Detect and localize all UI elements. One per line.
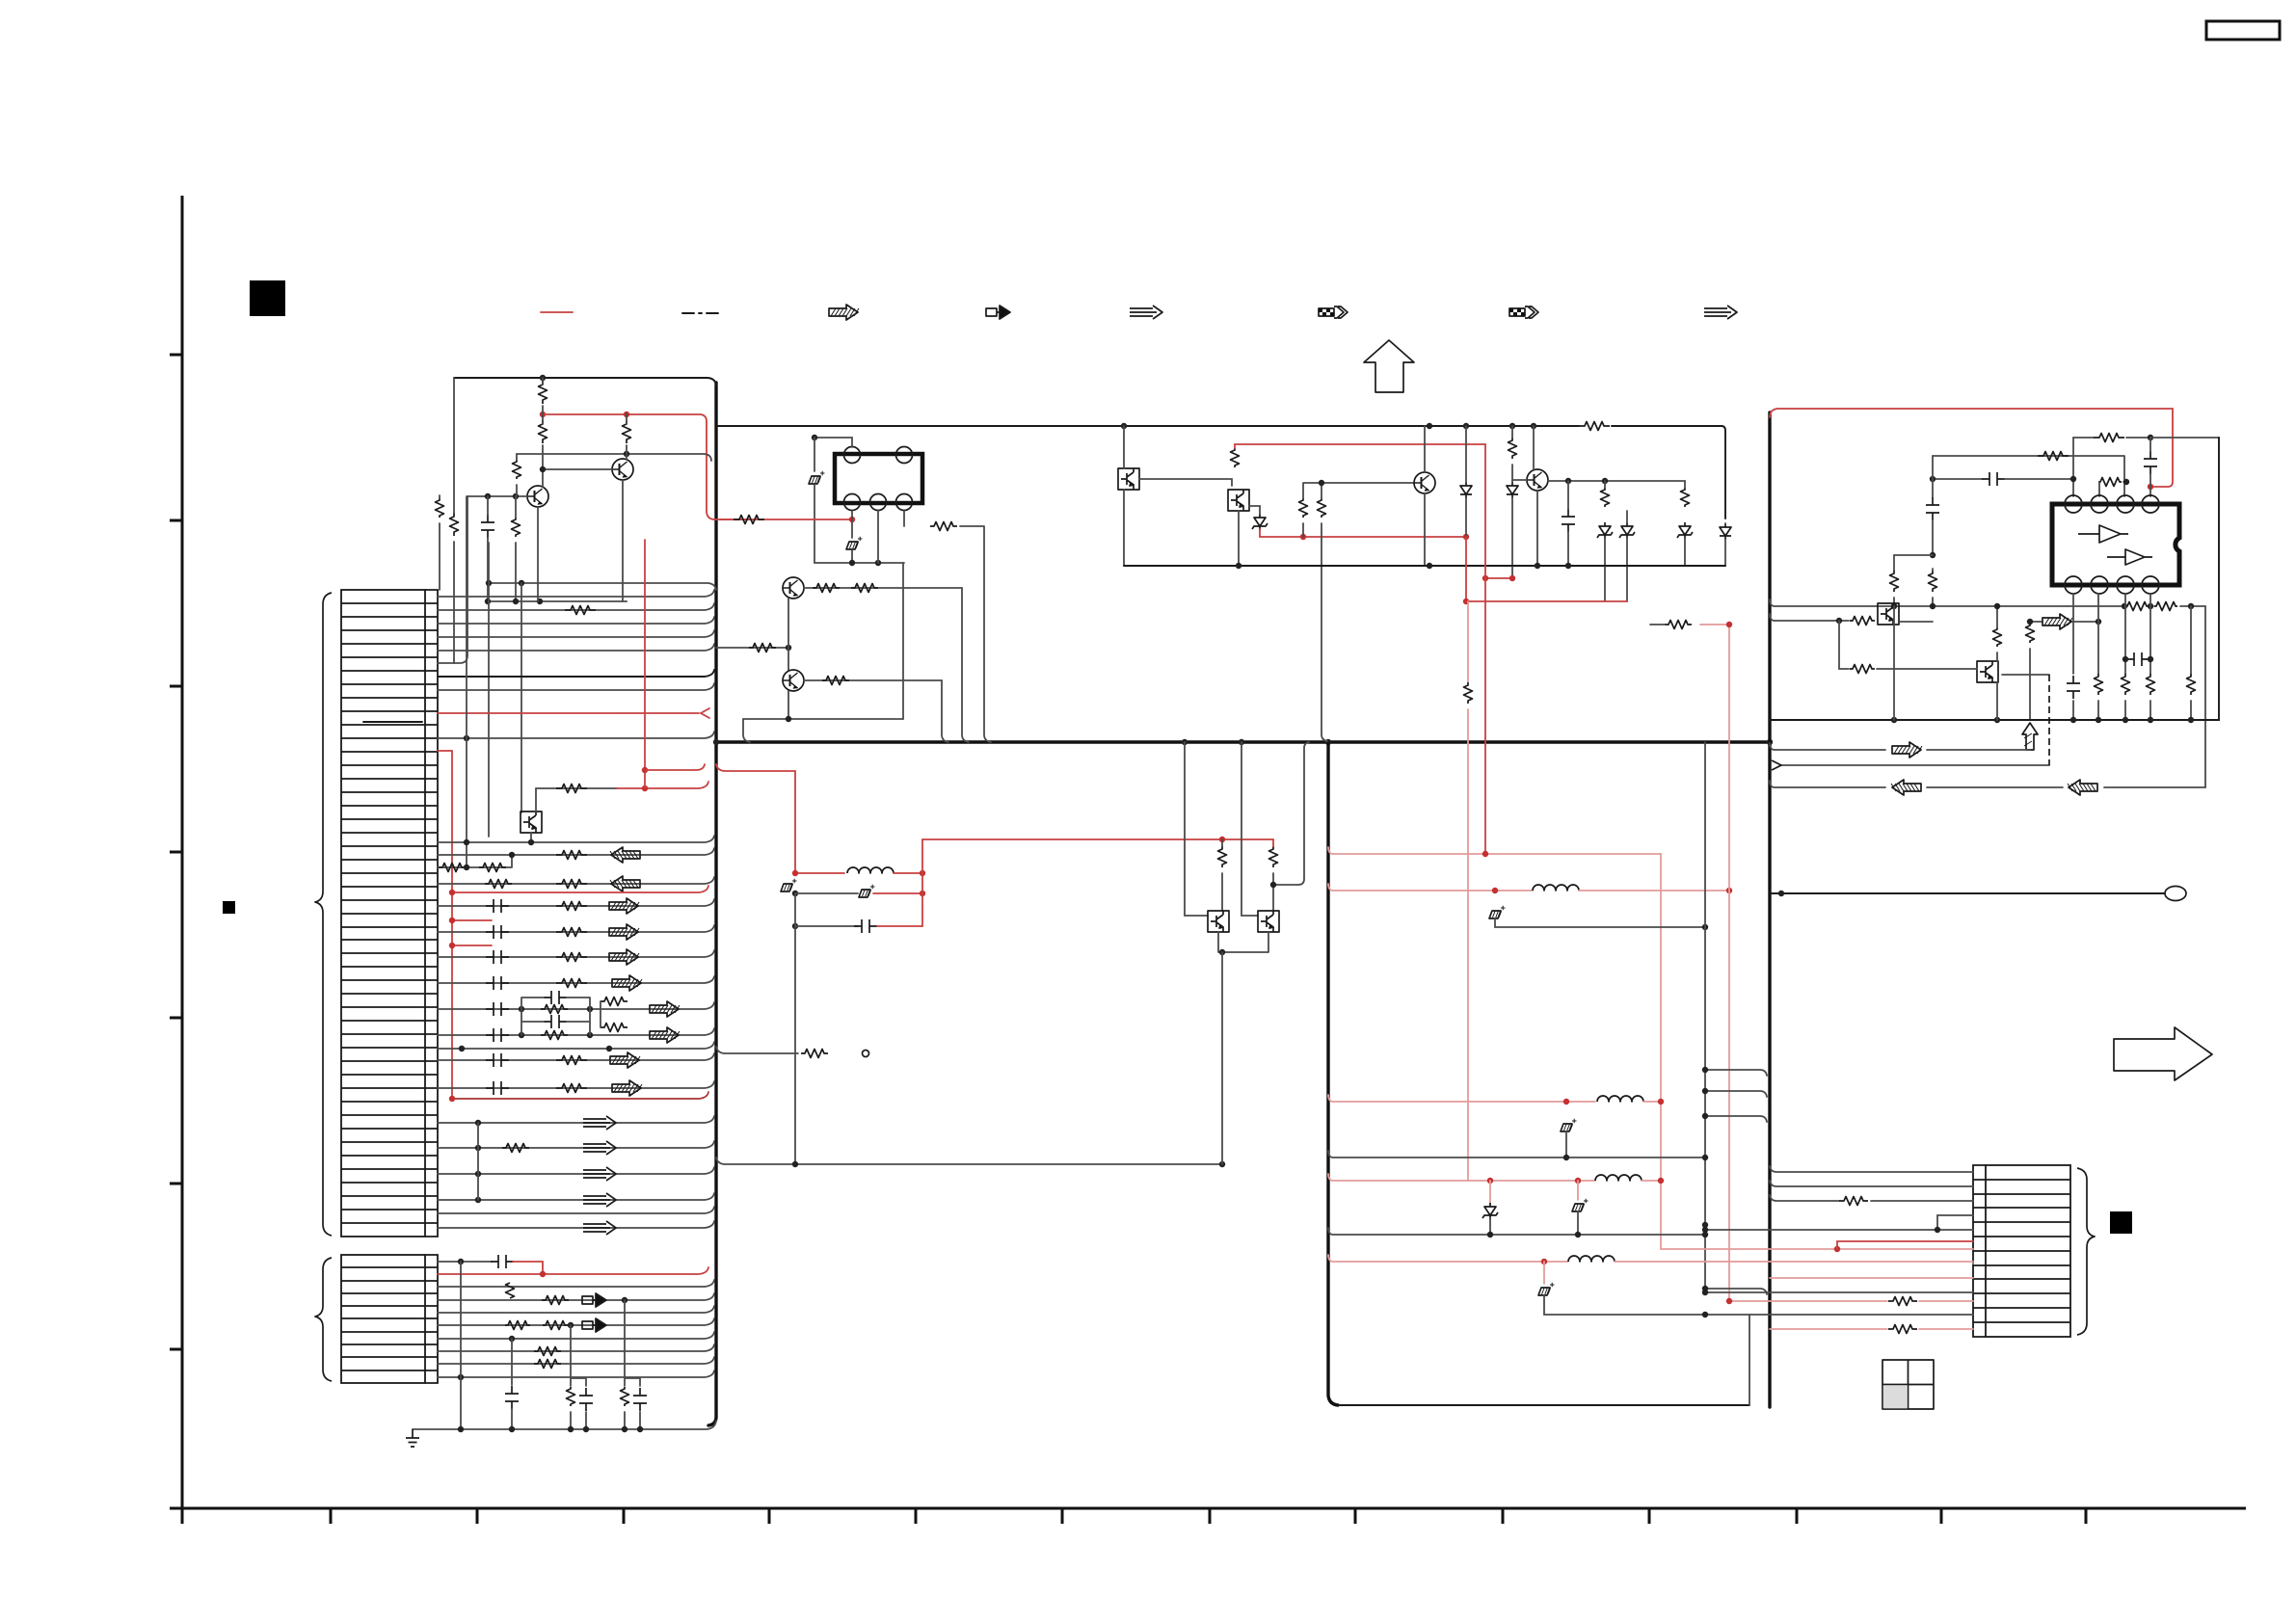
bus: left block right edge vertical x=743: [708, 383, 716, 1425]
resistor: [1508, 438, 1517, 459]
capacitor: [486, 1081, 509, 1095]
resistor small: [2098, 478, 2122, 487]
link wire y1158: [1705, 1116, 1767, 1122]
link wire y1337: [1705, 1289, 1767, 1294]
red node: [849, 517, 855, 522]
resistor: [556, 928, 587, 937]
wire x1569: [1511, 426, 1513, 578]
wire opto out: [1139, 479, 1232, 486]
pin wire row 1259: [438, 1207, 714, 1213]
wire Q3: [1424, 426, 1426, 566]
node: [519, 1032, 524, 1038]
pin wire row 900: [438, 855, 512, 867]
IC U2 top pin: [2065, 495, 2082, 513]
node: [1563, 1155, 1569, 1160]
legend: checkered arrow symbol 2: [1509, 306, 1538, 318]
node: [1935, 1227, 1940, 1233]
frame left border line: [181, 196, 184, 1508]
wire x2231: [2149, 438, 2151, 496]
resistor above PC5: [1269, 846, 1278, 867]
wire y961: [795, 893, 858, 926]
wire x1288: [1241, 742, 1258, 916]
resistor: [479, 864, 506, 872]
capacitor: [1562, 509, 1575, 532]
pin wire row 647: [438, 617, 714, 624]
pin wire row 702: [438, 670, 714, 677]
elec symbol: [846, 537, 863, 549]
CN2 row 1375: [438, 1318, 714, 1325]
wire y1364: [1544, 1295, 1749, 1405]
resistor: [541, 1005, 568, 1014]
wire PC3 to zener: [1249, 506, 1260, 514]
resistor R4: [513, 460, 521, 479]
opto coupler PC3: [1228, 490, 1249, 511]
node: [458, 1259, 464, 1264]
capacitor: [486, 925, 509, 939]
connector CN2 left brace: [315, 1258, 332, 1381]
wire y1201: [1328, 1131, 1705, 1157]
resistor: [534, 1347, 561, 1356]
chevron: [1772, 760, 1781, 770]
wire y473: [1933, 456, 2124, 496]
wire y497: [1933, 478, 1982, 480]
capacitor: [486, 899, 509, 913]
red row y906: [795, 872, 844, 874]
red node: [642, 785, 648, 791]
wire y817: [1770, 606, 2205, 787]
resistor: [601, 998, 627, 1006]
red row y1350: [1729, 1300, 1887, 1302]
resistor: [541, 1031, 568, 1040]
red vertical x469: [451, 751, 453, 1099]
pin wire row 716: [438, 683, 714, 690]
net verticals: [521, 998, 601, 1035]
wire x536: [516, 454, 518, 496]
CN2 row 1402: [438, 1344, 714, 1351]
pin wire row 661: [438, 630, 714, 637]
node: [786, 716, 791, 722]
resistor: [2038, 452, 2069, 461]
transistor Q2: [612, 459, 633, 480]
resistor row818: [556, 785, 587, 793]
bottom wire y624: [488, 600, 627, 602]
wire x1688: [1626, 511, 1628, 601]
pin wire row 619: [438, 590, 714, 597]
wire PC6 out: [1900, 621, 1933, 623]
node: [2122, 656, 2128, 662]
wire PC4 out: [1218, 932, 1268, 952]
resistor: [2125, 602, 2149, 611]
CN3 row 1216: [1770, 1166, 1973, 1172]
node: [624, 451, 629, 457]
red vert x1794: [1728, 625, 1730, 1301]
opto coupler PC7: [1977, 661, 1998, 682]
resistor: [1839, 1197, 1868, 1206]
resistor above PC7: [1993, 627, 2002, 647]
pin wire row 1218: [438, 1167, 714, 1174]
wire x535: [515, 496, 517, 601]
red node A: [540, 412, 546, 417]
red seg: [1919, 1300, 1973, 1302]
elec symbol: [1561, 1119, 1577, 1131]
resistor: [822, 677, 849, 685]
capacitor: [1926, 497, 1939, 520]
red row y1225: [1328, 1174, 1490, 1181]
CN2 row 1415: [438, 1357, 714, 1364]
red y624: [1466, 537, 1627, 601]
wire Q5 row: [804, 587, 962, 589]
triple-line arrow: [583, 1193, 616, 1207]
red pin row 926: [452, 886, 708, 892]
elec symbol: [859, 885, 875, 897]
pin wire row 766: [438, 732, 714, 738]
resistor: [556, 953, 587, 962]
red row y1326: [1729, 1277, 1973, 1279]
connector CN1 left brace: [315, 593, 332, 1236]
node: [458, 1426, 464, 1432]
resistor row633: [565, 606, 596, 615]
capacitor: [486, 1002, 509, 1016]
resistor: [930, 522, 957, 531]
CN2 row 1362: [438, 1306, 714, 1313]
wire x1965: [1893, 555, 1895, 571]
IC U1 bottom pin: [844, 494, 861, 511]
IC U2 bottom pin: [2091, 576, 2108, 594]
node: [475, 1145, 481, 1151]
legend: black square symbol: [250, 280, 285, 316]
wire Q1 collector: [543, 445, 612, 487]
wire y778: [1770, 743, 2030, 750]
IC U1 bottom pin: [896, 494, 913, 511]
bottom bus y747: [1770, 438, 2219, 720]
hatched arrow left: [2068, 780, 2097, 795]
capacitor: [1982, 472, 2005, 486]
resistor: [2122, 674, 2130, 695]
wire x456: [439, 495, 441, 590]
resistor: [749, 644, 776, 652]
hollow right arrow: [2114, 1027, 2212, 1080]
node: [1702, 1290, 1708, 1295]
wire x1371 long: [1322, 523, 1327, 741]
red jog: [513, 1262, 543, 1274]
pin wire row 874: [438, 836, 714, 842]
resistor row1191: [502, 1144, 529, 1153]
resistor: [1665, 621, 1692, 629]
resistor: [556, 1084, 587, 1093]
node: [568, 1322, 574, 1328]
wire x998: [962, 588, 969, 742]
CN3 row 1276: [1705, 1229, 1973, 1231]
hatched arrow right: [609, 924, 639, 940]
legend: checkered arrow symbol: [1319, 306, 1348, 318]
wire Q4: [1512, 426, 1537, 566]
wire right to x2302: [2150, 437, 2219, 439]
resistor: [1888, 1297, 1917, 1306]
red seg: [894, 872, 922, 874]
wire y746: [743, 718, 903, 720]
resistor: [542, 1296, 569, 1305]
node: [1702, 1312, 1708, 1317]
node: [486, 580, 492, 586]
resistor v: [567, 1387, 575, 1406]
node: [1487, 1232, 1493, 1237]
resistor: [813, 584, 840, 593]
wire x937: [902, 563, 904, 719]
red wire y871: [922, 838, 1273, 840]
red feed top right corner: [1770, 409, 2173, 487]
hatched arrow right: [650, 1027, 680, 1043]
wire: [1894, 569, 1933, 606]
node: [1702, 1227, 1708, 1233]
capacitor: [2067, 676, 2080, 699]
legend: triple-line arrow small: [1704, 306, 1737, 319]
opto coupler PC5: [1258, 911, 1279, 932]
quadrant symbol 2x2: [1882, 1360, 1934, 1409]
hatched arrow right: [610, 1052, 640, 1068]
wire x592: [571, 1325, 586, 1429]
wire y644: [1770, 614, 1849, 621]
wire x771: [743, 719, 750, 742]
red stub 955: [452, 919, 492, 921]
wire: [1273, 742, 1309, 910]
transistor Q1: [527, 486, 548, 507]
left resistor R6: [450, 513, 459, 536]
diode D3: [1507, 482, 1518, 498]
long wire y442: [716, 426, 1725, 519]
node: [509, 1336, 515, 1342]
wire x845: [814, 438, 815, 471]
IC U1 body: [835, 454, 922, 503]
red row 818: [617, 782, 708, 788]
node: [1702, 924, 1708, 930]
wire x648: [625, 1300, 640, 1429]
connector CN1 pin separators: [341, 603, 438, 1223]
resistor: [505, 1321, 530, 1330]
hatched arrow right: [612, 975, 642, 991]
wire y672: [716, 647, 788, 649]
legend: red wire sample: [541, 311, 573, 313]
bus: right block left edge x=1836: [1768, 412, 1771, 1407]
node: [792, 891, 798, 896]
opamp triangle 1: [2078, 525, 2128, 543]
pin wire row 993: [438, 950, 714, 957]
wire row 818: [536, 787, 617, 789]
wire x818: [788, 599, 789, 719]
node: [519, 1006, 524, 1012]
red row y1309: [1328, 1255, 1544, 1262]
pin wire row 1245: [438, 1193, 714, 1200]
nodes y587: [1236, 563, 1241, 569]
hatched arrow right: [609, 949, 639, 965]
wire y1281: [1328, 1211, 1705, 1235]
wire base drop x485: [454, 496, 467, 663]
wire y927: [795, 892, 858, 894]
wire y794: [1781, 764, 2049, 766]
wire x825 down: [794, 926, 796, 1164]
CN2 row 1309: [438, 1261, 492, 1263]
triple-line arrow: [583, 1221, 616, 1235]
wire: [1221, 839, 1223, 910]
wire x1229: [1185, 742, 1208, 916]
red wire Vcc: [543, 414, 750, 519]
resistor: [851, 584, 878, 593]
red vert x957: [921, 839, 923, 926]
CN3 row 1231: [1770, 1181, 1973, 1186]
elec symbol: [1577, 1181, 1579, 1200]
resistor: [556, 902, 587, 911]
resistor: [1681, 488, 1690, 507]
red row y800: [716, 764, 795, 873]
node: [1702, 1286, 1708, 1291]
resistor: [485, 880, 512, 889]
triple-line arrow: [583, 1167, 616, 1181]
capacitor C1: [481, 515, 494, 538]
frame bottom tick marks: [182, 1508, 2086, 1524]
node: [485, 493, 491, 499]
capacitor: [486, 976, 509, 990]
hatched arrow left: [610, 847, 640, 863]
pin wire row 967: [438, 925, 714, 932]
resistor to test point: [716, 1047, 798, 1053]
wire: [2099, 482, 2126, 496]
CN2 row 1335: [438, 1280, 714, 1287]
zener D4: [1597, 522, 1613, 539]
CN2 row 1389: [438, 1332, 714, 1339]
red node: [642, 767, 648, 773]
ground bus: [413, 1421, 716, 1429]
node: [1930, 552, 1936, 558]
nodes y747: [1891, 717, 1897, 723]
CN2 red row 1322: [438, 1267, 708, 1274]
node: [812, 435, 817, 440]
wire x1268: [1221, 952, 1223, 1164]
resistor: [1929, 571, 1937, 592]
wire x1665: [1604, 481, 1606, 601]
opamp triangle 2: [2107, 549, 2152, 565]
node: [792, 923, 798, 929]
capacitor: [486, 950, 509, 964]
pin wire row 1129: [438, 1081, 714, 1088]
resistor R7: [436, 498, 444, 518]
wire U1 pin3: [904, 511, 991, 742]
link wire y1132: [1705, 1091, 1767, 1097]
IC U2 bottom pin: [2065, 576, 2082, 594]
IC U1 top pin: [844, 447, 861, 464]
resistor: [2154, 602, 2177, 611]
inductor L5: [1568, 1256, 1615, 1262]
resistor: [1601, 488, 1610, 507]
connector CN1 body: [341, 590, 425, 1237]
resistor: [1850, 617, 1875, 625]
IC pin drops: [2073, 594, 2191, 720]
page number box top right: [2206, 21, 2280, 40]
wire: [814, 485, 904, 563]
IC U2 bottom pin: [2117, 576, 2134, 594]
resistor R3: [623, 420, 631, 443]
capacitor: [505, 1386, 519, 1409]
capacitor: [491, 1255, 514, 1268]
red jog y600: [1485, 577, 1512, 579]
wire y694: [1839, 668, 1849, 670]
wire y645 arrow: [2030, 621, 2098, 623]
node: [509, 852, 515, 858]
red seg: [1642, 1180, 1661, 1182]
connector CN1 inner mark: [363, 721, 422, 723]
node top wire: [540, 375, 546, 381]
pin wire row 887: [438, 848, 714, 855]
red pin row 1140: [452, 1092, 708, 1099]
resistor: [556, 851, 587, 860]
node: [1778, 891, 1784, 896]
wire y629: [1770, 599, 2205, 606]
bus: middle block left edge x=1378: [1328, 742, 1338, 1405]
wire Q2 emitter: [623, 480, 627, 601]
CN3 red row 1379: [1770, 1328, 1973, 1330]
pin wire row 1100: [438, 1053, 714, 1060]
zener D6: [1619, 522, 1635, 539]
red jog top: [1700, 624, 1729, 625]
wire x2072 low: [1996, 682, 1998, 720]
wire: [511, 1409, 513, 1429]
resistor: [556, 1056, 587, 1065]
wire above U1: [814, 438, 852, 447]
wire x478: [460, 1262, 462, 1429]
red stub 981: [452, 945, 492, 946]
red vert x1523 long: [1467, 601, 1469, 1181]
node: [464, 735, 469, 741]
zener D5: [1677, 522, 1693, 539]
node: [792, 1161, 798, 1167]
resistor inline: [1579, 422, 1610, 431]
node Q2 base: [540, 466, 546, 472]
wire: [1932, 520, 1934, 555]
capacitor: [486, 1028, 509, 1042]
legend: hatched arrow symbol: [829, 305, 859, 320]
wire U1 pin1 down: [851, 511, 853, 519]
red seg: [877, 925, 922, 927]
resistor: [1888, 1325, 1917, 1334]
pin wire row 940: [438, 899, 714, 906]
stubs: [543, 378, 627, 424]
hatched arrow up: [2022, 723, 2038, 750]
capacitor: [2144, 451, 2157, 474]
wire PC7 out: [2002, 674, 2049, 676]
red jog CN3: [1837, 1241, 1973, 1249]
opto coupler PC6: [1878, 603, 1899, 625]
small black square marker left middle: [223, 901, 235, 914]
node: [2027, 619, 2033, 625]
long wire y927: [1770, 892, 2164, 894]
resistor: [1890, 571, 1899, 592]
IC U2 top pin: [2091, 495, 2108, 513]
opto coupler PC2: [1118, 468, 1139, 490]
capacitor v: [633, 1388, 647, 1411]
wire stub: [1650, 624, 1665, 625]
black res on red line: [1464, 682, 1473, 704]
IC U2 top pin: [2142, 495, 2159, 513]
red seg: [873, 892, 922, 894]
bus junction nodes: [713, 739, 719, 745]
red pin row 779: [438, 750, 452, 752]
CN3 row 1261 L: [1937, 1215, 1973, 1230]
node: [622, 1297, 627, 1303]
triple-line arrow: [583, 1141, 616, 1155]
wire x484: [466, 496, 467, 867]
IC U1 top pin: [896, 447, 913, 464]
red row y924: [1328, 884, 1495, 891]
coupling caps pair: [544, 991, 567, 1004]
pin wire row 917: [438, 877, 714, 884]
